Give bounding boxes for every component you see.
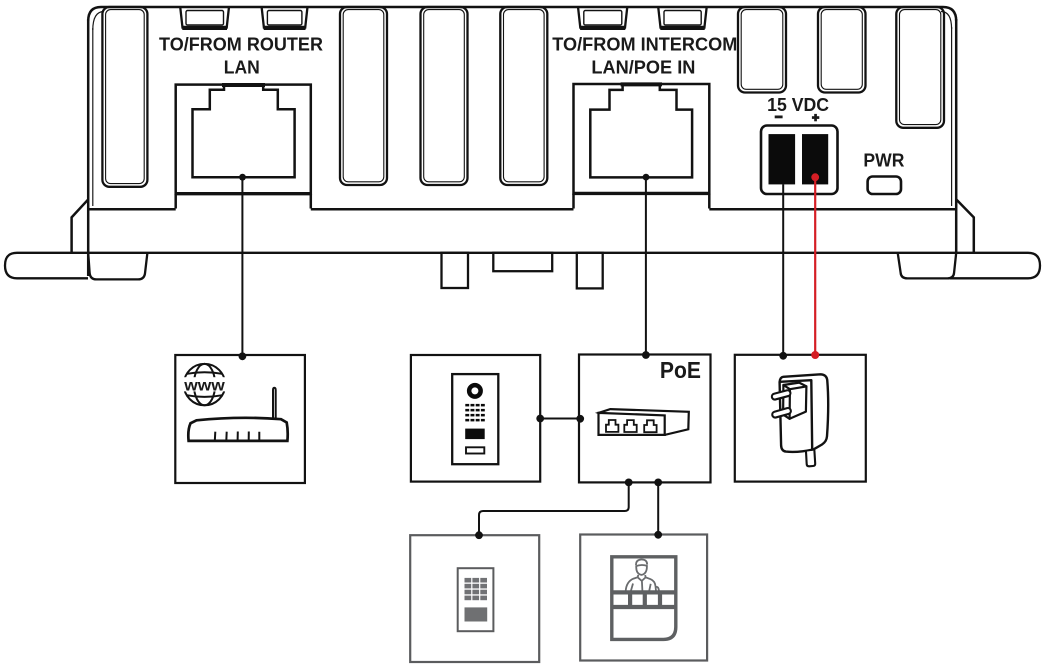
junction dot door station right xyxy=(536,415,544,423)
gate person icon xyxy=(612,557,676,640)
junction dot keypad top xyxy=(475,531,483,539)
nameplate xyxy=(466,447,484,453)
svg-text:www: www xyxy=(183,377,225,394)
bottom tab 2 xyxy=(577,253,603,289)
vent slot L1 xyxy=(102,7,147,187)
junction dot gate top xyxy=(654,531,662,539)
terminal block 15 VDC xyxy=(761,126,838,195)
camera xyxy=(467,383,483,399)
call button xyxy=(465,429,485,440)
svg-text:LAN: LAN xyxy=(224,58,260,78)
DIN rail bar right / full top line xyxy=(147,253,1040,278)
terminal - (black square) xyxy=(769,134,796,184)
wire PoE box to keypad box xyxy=(479,482,629,535)
globe icon with www xyxy=(184,364,225,405)
svg-text:LAN/POE IN: LAN/POE IN xyxy=(591,58,695,78)
vent slot M1 xyxy=(340,7,387,185)
svg-text:TO/FROM ROUTER: TO/FROM ROUTER xyxy=(159,35,323,55)
terminal + (black square) xyxy=(802,134,828,184)
junction dots PoE bottom xyxy=(625,479,633,487)
svg-text:TO/FROM INTERCOM: TO/FROM INTERCOM xyxy=(552,35,737,55)
vent slot M3 xyxy=(500,7,547,185)
junction dot PoE left xyxy=(576,415,584,423)
left side flap xyxy=(72,199,89,252)
frame with curled corner xyxy=(612,557,676,640)
wire plus terminal to adapter box (red) xyxy=(814,177,816,355)
bottom tab 1 xyxy=(442,253,469,288)
door station icon xyxy=(452,374,498,464)
junction dot adapter top black xyxy=(779,352,787,360)
junction dot PoE top xyxy=(642,351,650,359)
box PoE switch xyxy=(579,355,711,483)
wire intercom port to PoE box xyxy=(645,177,647,355)
vent slot C xyxy=(896,7,944,128)
label TO/FROM ROUTER LAN xyxy=(159,35,323,78)
junction dot red at terminal xyxy=(811,173,819,181)
prong 1 xyxy=(775,393,788,396)
box door station xyxy=(411,355,540,482)
inner edge echo lines xyxy=(93,12,952,207)
PWR LED window xyxy=(868,177,901,195)
RJ45 port P2 (intercom) xyxy=(574,84,710,209)
box keypad xyxy=(410,535,539,662)
right side flap xyxy=(956,199,974,253)
power adapter icon xyxy=(775,374,828,466)
person head xyxy=(636,565,647,575)
speaker grid xyxy=(465,404,485,422)
minus sign xyxy=(775,116,783,119)
top mounting tab 1 xyxy=(180,8,229,28)
vent slot B xyxy=(818,7,866,93)
body xyxy=(780,374,829,452)
junction dot adapter top red xyxy=(811,351,819,359)
RJ45 port P1 (router) xyxy=(176,85,311,209)
plug block xyxy=(783,383,806,419)
wire minus terminal to adapter box (black) xyxy=(782,184,784,355)
right mounting foot xyxy=(898,253,957,279)
wire door station to PoE box xyxy=(540,418,580,420)
svg-text:PWR: PWR xyxy=(863,150,904,170)
wire PoE box to gate box xyxy=(657,482,659,535)
vent slot A xyxy=(738,7,786,93)
DIN rail bar left xyxy=(5,253,147,278)
keypad icon xyxy=(458,568,494,631)
box internet router xyxy=(175,355,305,483)
fence band xyxy=(612,592,676,607)
torso and shoulders xyxy=(626,577,659,591)
wire router port to internet box xyxy=(241,177,243,356)
top mounting tab 4 xyxy=(658,8,706,28)
junction dot internet box top xyxy=(239,352,247,360)
box gate / person xyxy=(580,535,707,661)
top mounting tab 3 xyxy=(578,8,627,28)
left mounting foot xyxy=(88,253,147,280)
label TO/FROM INTERCOM LAN/POE IN xyxy=(552,35,737,78)
PoE switch icon xyxy=(599,409,689,435)
prong 2 xyxy=(775,411,788,415)
front face edges xyxy=(780,380,812,450)
box power adapter xyxy=(735,355,866,482)
plus sign xyxy=(812,116,819,119)
junction dot P2 xyxy=(643,174,650,181)
vent slot M2 xyxy=(421,7,468,185)
cap xyxy=(636,559,648,566)
label 15 VDC xyxy=(767,95,829,121)
top mounting tab 2 xyxy=(262,8,308,28)
router icon xyxy=(188,388,287,441)
svg-text:15 VDC: 15 VDC xyxy=(767,95,829,115)
junction dot P1 xyxy=(239,174,246,181)
cord stub xyxy=(806,451,815,467)
neck and collar xyxy=(638,575,646,591)
svg-text:PoE: PoE xyxy=(660,357,701,383)
bottom tab wide xyxy=(493,253,552,271)
device rear panel outline xyxy=(88,7,956,276)
